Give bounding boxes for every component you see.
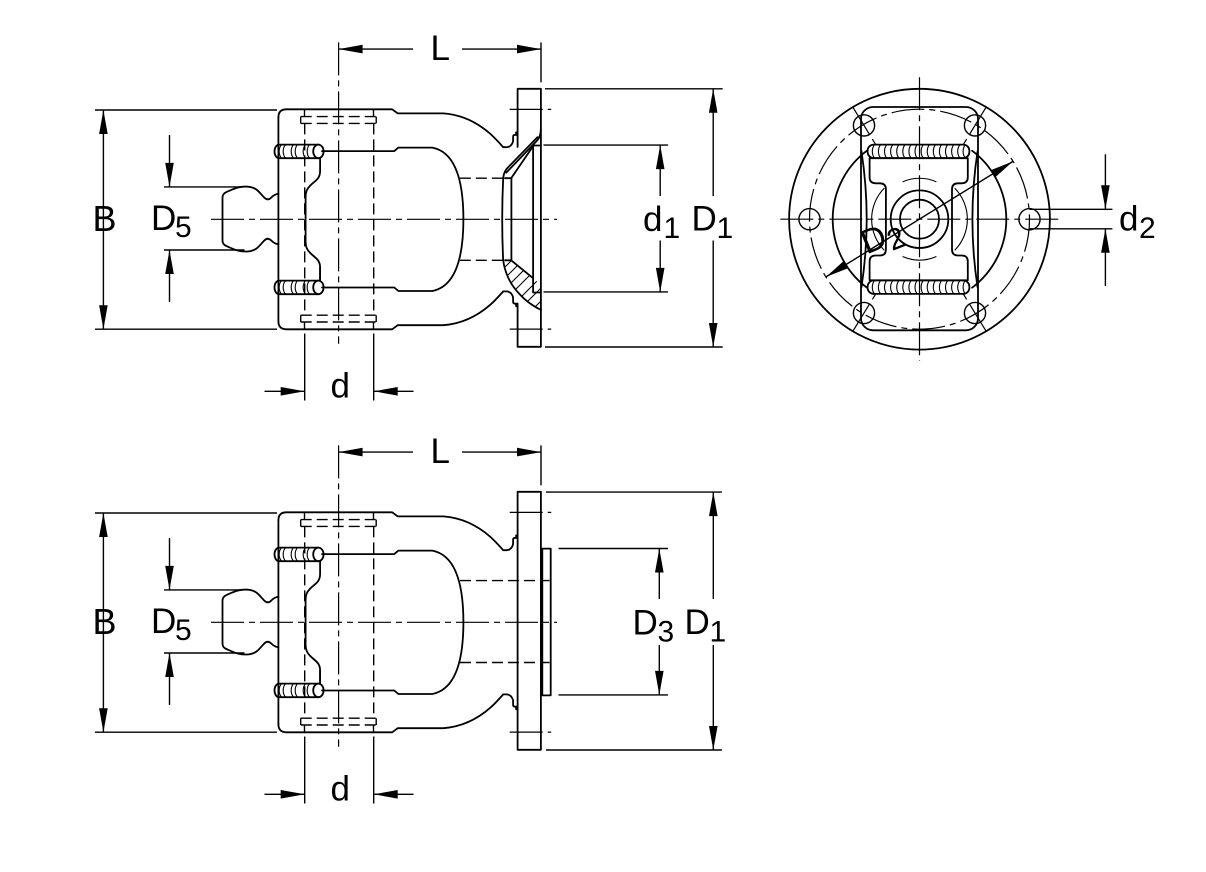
bearing cap with serrations (top) (275, 145, 324, 159)
hub boss on flange (542, 549, 550, 696)
bolt circle centerline (810, 109, 1030, 329)
svg-text:D: D (151, 199, 176, 238)
dimension D2 line (826, 161, 1013, 277)
dimension d arrows (281, 387, 305, 396)
horizontal centerline (211, 218, 557, 220)
dimension D5 extensions (164, 187, 245, 250)
counterbore arc bottom (903, 257, 937, 261)
dimension d2 arrows (1101, 185, 1110, 209)
svg-text:5: 5 (175, 211, 192, 244)
dimension d1 extensions (544, 145, 669, 292)
label D2 (855, 211, 910, 267)
serration band top (868, 145, 970, 159)
shaft end tab (guard collar) (223, 187, 279, 252)
counterbore arc top (903, 178, 937, 182)
svg-text:d: d (643, 200, 662, 239)
yoke back silhouette rounded square (861, 107, 978, 330)
cone outer edge upper with curl (506, 130, 541, 173)
bolt hole left (799, 209, 820, 230)
ear inner profile upper (bearing boss) (306, 158, 321, 281)
bore throat edge (510, 178, 512, 260)
spline bore visible ticks (top) (305, 109, 374, 116)
bolt hole bottom-right (964, 302, 985, 323)
cone bore arc (502, 178, 503, 261)
yoke body left edge (277, 117, 279, 321)
dimension D1 extensions (545, 89, 723, 347)
svg-text:1: 1 (664, 212, 681, 245)
dimension D2 arrows (824, 261, 849, 281)
silhouette waist right (972, 151, 977, 288)
dimension d extensions (305, 334, 374, 401)
flange pilot recess (533, 146, 541, 293)
dimension D3 line (658, 549, 660, 695)
center boss circle (891, 190, 949, 248)
dimension D5 arrow arms (169, 135, 171, 302)
cross bore hidden lines (305, 123, 374, 315)
cone outer silhouette upper (503, 137, 537, 178)
dimension B line and extensions (95, 110, 277, 329)
second side view (lower variant) (93, 432, 558, 809)
dimension L right extension (540, 42, 542, 82)
yoke outer outline lower half (278, 291, 517, 329)
circle view horizontal centerline (780, 218, 1063, 220)
yoke inner ear lines and mouth arc (322, 148, 463, 291)
radial center mark top-left hole (853, 107, 876, 145)
cone lower outer curve (503, 262, 541, 310)
spline bore hidden rectangle (bottom) (301, 315, 377, 322)
shoulder arc right (972, 151, 1006, 288)
dimension d1 line (659, 145, 661, 292)
boss arc right (955, 188, 968, 250)
serration band bottom (868, 280, 970, 294)
dimension D3 arrows (655, 549, 664, 573)
center bore circle (900, 200, 939, 239)
svg-text:1: 1 (710, 616, 727, 649)
dimension D3 extensions (559, 549, 669, 695)
dimension D1 line (lower view) (712, 492, 714, 750)
dimension d arrow arms (265, 390, 414, 392)
dimension L arrows (339, 45, 363, 54)
dimension D1 line (712, 89, 714, 347)
hub bore hidden lines (460, 581, 550, 663)
cone lower inner edge (511, 260, 533, 278)
silhouette waist left (861, 151, 866, 288)
spline bore hidden rectangle (top) (301, 117, 377, 124)
dimension D1 extensions (lower view) (546, 492, 722, 750)
svg-text:2: 2 (1139, 212, 1156, 245)
cross vertical centerline (338, 42, 340, 343)
weld notch upper at flange junction (516, 132, 518, 135)
shoulder arc left (833, 151, 867, 288)
dimension D1 arrows (709, 89, 718, 113)
bolt circle edge lines on flange (510, 109, 552, 329)
cone bore hidden lines d1 (460, 178, 504, 260)
svg-text:L: L (431, 29, 450, 68)
yoke outer outline upper half (278, 109, 517, 147)
svg-text:d: d (1119, 200, 1138, 239)
radial center mark bottom-right hole (964, 294, 987, 332)
spline bore visible ticks (bottom) (305, 322, 374, 329)
bearing cap with serrations (bottom) (275, 281, 324, 295)
weld notch lower at flange junction (516, 304, 518, 307)
cross boss I-shape (870, 158, 968, 280)
svg-text:d: d (331, 367, 350, 406)
dimension d2 arrow arms (1104, 154, 1106, 286)
bolt hole top-left (853, 115, 874, 136)
bolt hole top-right (964, 115, 985, 136)
dimension L line (339, 48, 541, 50)
svg-text:D: D (692, 200, 717, 239)
flange outer circle (789, 89, 1050, 350)
bore corner lines (505, 178, 511, 260)
dimension D5 arrows (165, 163, 174, 187)
svg-text:D: D (685, 603, 710, 642)
bolt hole bottom-left (853, 302, 874, 323)
dimension D1 arrows (lower view) (709, 492, 718, 516)
boss arc left (872, 188, 885, 250)
svg-text:B: B (93, 198, 117, 239)
cone section hatching (460, 255, 598, 316)
circle view vertical centerline (919, 77, 921, 361)
flange plate outline (518, 89, 541, 347)
ear inner profile lower (319, 268, 321, 281)
flange left face full edge (lower view) (517, 549, 519, 708)
dimension d1 arrows (656, 145, 665, 169)
bolt hole right (1019, 209, 1040, 230)
dimension d2 extensions (1030, 209, 1113, 229)
cone inner edge upper (511, 146, 533, 178)
svg-text:3: 3 (658, 616, 675, 649)
radial center mark bottom-left hole (853, 294, 876, 332)
radial center mark top-right hole (964, 107, 987, 145)
dimension B arrows (99, 110, 108, 134)
svg-text:1: 1 (717, 212, 734, 245)
svg-text:D: D (633, 604, 658, 643)
